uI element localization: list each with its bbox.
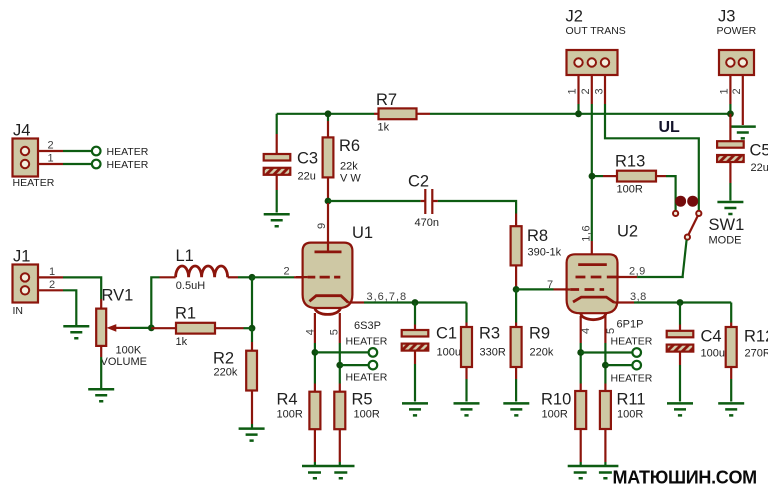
ground (R12) [718, 403, 744, 415]
wire J1 pin1 to RV1 top [38, 277, 101, 299]
svg-text:R9: R9 [529, 325, 550, 343]
svg-text:1: 1 [49, 266, 55, 278]
connector J2 [566, 8, 626, 95]
svg-text:3,8: 3,8 [630, 291, 647, 303]
svg-text:HEATER: HEATER [611, 336, 653, 348]
svg-text:IN: IN [13, 305, 24, 317]
node HEATER (U1 pin4) [346, 336, 388, 357]
wire J1 pin2 to ground [38, 290, 76, 325]
capacitor C2 [408, 173, 439, 230]
svg-text:R1: R1 [175, 305, 196, 323]
node HEATER (J4 pin1) [92, 159, 149, 171]
capacitor C3 [264, 114, 318, 213]
resistor R2 [213, 328, 257, 427]
svg-text:0.5uH: 0.5uH [176, 280, 205, 292]
wire top supply net [277, 113, 374, 115]
op-amp U2 (pentode 6P1P) [565, 223, 643, 335]
ground (C5) [717, 202, 743, 214]
svg-text:2: 2 [580, 88, 592, 94]
node A junction (RV1/R1/L1) [148, 277, 160, 331]
capacitor C5 [717, 114, 768, 201]
node junction (U2 pin5 heater) [602, 362, 632, 369]
svg-text:22k: 22k [340, 161, 358, 173]
watermark МАТЮШИН.COM [613, 468, 757, 488]
svg-text:HEATER: HEATER [611, 373, 653, 385]
wire RV1 bottom to ground [100, 357, 102, 388]
svg-text:R6: R6 [339, 137, 360, 155]
svg-text:J3: J3 [718, 8, 735, 26]
node HEATER (U2 pin4) [611, 336, 653, 357]
svg-text:22u: 22u [298, 171, 316, 183]
svg-text:U1: U1 [352, 224, 373, 242]
svg-text:C5: C5 [750, 142, 768, 160]
wire U1 cathode net 3,6,7,8 [348, 291, 466, 303]
svg-text:J2: J2 [566, 8, 583, 26]
svg-text:HEATER: HEATER [346, 336, 388, 348]
svg-text:R3: R3 [479, 325, 500, 343]
wire U1 pin5 [339, 313, 341, 392]
svg-text:470n: 470n [415, 217, 439, 229]
resistor R10 [541, 391, 586, 466]
svg-text:MODE: MODE [709, 235, 742, 247]
node junction (U1 pin4 heater) [312, 349, 369, 356]
svg-text:6S3P: 6S3P [354, 320, 381, 332]
svg-text:9: 9 [316, 223, 328, 229]
svg-text:R12: R12 [744, 328, 768, 346]
svg-text:R13: R13 [615, 153, 645, 171]
wire SW1 common to U2 screen 2,9 [616, 240, 687, 278]
resistor R12 [726, 303, 768, 402]
ground (R11) [599, 473, 612, 479]
svg-text:R2: R2 [213, 350, 234, 368]
svg-text:HEATER: HEATER [107, 146, 149, 158]
capacitor C4 [667, 303, 725, 402]
svg-text:OUT TRANS: OUT TRANS [566, 25, 626, 37]
svg-text:100R: 100R [617, 409, 643, 421]
wire C2 to R8 [438, 201, 516, 214]
svg-text:R10: R10 [541, 391, 571, 409]
svg-text:220k: 220k [530, 347, 554, 359]
node junction (U2 pin4 heater) [577, 349, 632, 356]
svg-text:J4: J4 [13, 122, 30, 140]
svg-text:100R: 100R [617, 184, 643, 196]
svg-text:100K: 100K [116, 345, 142, 357]
ground (C4) [667, 403, 693, 415]
wire J3 pin1 to supply net [727, 75, 734, 117]
svg-text:UL: UL [659, 119, 681, 136]
node B junction (L1/U1 grid/R1-R2) [249, 274, 256, 332]
svg-text:270R: 270R [745, 348, 768, 360]
wire J2 pin1 to supply net [575, 75, 582, 117]
svg-text:МАТЮШИН.COM: МАТЮШИН.COM [613, 468, 757, 488]
svg-text:100R: 100R [277, 409, 303, 421]
node junction (R6 bottom / U1 plate / C2) [325, 198, 421, 205]
wire U1 pin4 [314, 313, 316, 392]
resistor R13 [592, 153, 676, 212]
wire J4 pin1 to heater node [38, 163, 92, 165]
resistor R11 [600, 391, 646, 466]
potentiometer RV1 [96, 287, 147, 368]
ground (J1 pin2) [63, 326, 89, 338]
svg-text:2: 2 [48, 140, 54, 152]
ground (R9) [503, 403, 529, 415]
svg-text:3,6,7,8: 3,6,7,8 [367, 291, 408, 303]
svg-text:1,6: 1,6 [581, 225, 593, 242]
svg-text:HEATER: HEATER [13, 177, 55, 189]
svg-text:22u: 22u [751, 162, 768, 174]
wire node B to U1 grid pin 2 [252, 265, 302, 277]
wire J2 pin2 to U2 plate [591, 75, 593, 265]
svg-text:VOLUME: VOLUME [101, 356, 147, 368]
svg-text:HEATER: HEATER [346, 372, 388, 384]
svg-text:C1: C1 [436, 325, 457, 343]
svg-text:2: 2 [49, 279, 55, 291]
svg-text:R4: R4 [277, 391, 298, 409]
svg-text:POWER: POWER [717, 25, 757, 37]
svg-text:1k: 1k [176, 336, 188, 348]
wire J4 pin2 to heater node [38, 150, 92, 152]
svg-text:HEATER: HEATER [107, 159, 149, 171]
ground (C1) [402, 403, 428, 415]
wire U2 pin5 [604, 316, 606, 391]
svg-text:U2: U2 [617, 223, 638, 241]
inductor L1 [160, 247, 239, 292]
resistor R9 [511, 289, 554, 401]
svg-text:220k: 220k [214, 367, 238, 379]
svg-text:7: 7 [547, 279, 553, 291]
wire U2 cathode net 3,8 [614, 291, 731, 303]
svg-text:R11: R11 [617, 391, 646, 409]
resistor R7 [374, 91, 430, 134]
node junction (R6 top) [325, 110, 332, 117]
resistor R6 [323, 114, 362, 201]
connector J4 [13, 122, 55, 190]
svg-text:100u: 100u [437, 347, 461, 359]
wire U2 pin4 [580, 316, 582, 391]
resistor R1 [151, 305, 252, 349]
svg-text:390-1k: 390-1k [528, 247, 562, 259]
node HEATER (J4 pin2) [92, 146, 149, 158]
connector J1 [13, 248, 56, 318]
ground (R10) [568, 466, 619, 478]
ground (R2) [239, 429, 265, 441]
svg-text:2,9: 2,9 [629, 266, 646, 278]
svg-text:1k: 1k [378, 122, 390, 134]
wire J3 pin2 to ground [742, 75, 744, 125]
svg-text:1: 1 [567, 88, 579, 94]
resistor R3 [461, 303, 506, 402]
svg-text:RV1: RV1 [102, 287, 134, 305]
svg-text:C3: C3 [297, 150, 318, 168]
node junction (R13/U2 plate net) [589, 173, 596, 180]
svg-text:100u: 100u [701, 348, 725, 360]
svg-text:100R: 100R [542, 409, 568, 421]
node junction (R8/R9/U2 grid) [513, 279, 567, 293]
ground (R5) [334, 473, 347, 479]
svg-text:J1: J1 [13, 248, 30, 266]
svg-text:R5: R5 [352, 391, 373, 409]
resistor R4 [277, 391, 321, 466]
wire J2 pin3 UL net [605, 75, 699, 211]
svg-text:R7: R7 [376, 91, 397, 109]
svg-text:C2: C2 [408, 173, 429, 191]
svg-text:R8: R8 [527, 227, 548, 245]
ground (C3) [264, 214, 290, 226]
connector J3 [717, 8, 757, 95]
resistor R5 [334, 391, 380, 466]
svg-text:1: 1 [719, 88, 731, 94]
svg-text:SW1: SW1 [709, 216, 745, 234]
ground (RV1) [88, 389, 114, 401]
node junction (U1 pin5 heater) [336, 362, 368, 369]
ground (J3 pin2) [730, 127, 756, 139]
svg-text:5: 5 [605, 328, 617, 334]
wire L1 to U1 grid node [238, 276, 252, 278]
svg-text:330R: 330R [480, 347, 506, 359]
ground (R3) [454, 403, 480, 415]
capacitor C1 [402, 303, 461, 402]
svg-text:100R: 100R [354, 409, 380, 421]
node HEATER (U1 pin5) [346, 361, 388, 384]
switch SW1 [673, 196, 744, 247]
svg-text:2: 2 [731, 88, 743, 94]
node HEATER (U2 pin5) [611, 361, 653, 385]
op-amp U1 (triode 6S3P) [296, 203, 381, 335]
resistor R8 [511, 214, 562, 290]
svg-text:2: 2 [284, 265, 290, 277]
node junction (C1 tap) [412, 299, 419, 306]
svg-text:3: 3 [593, 88, 605, 94]
svg-text:V W: V W [340, 172, 361, 184]
svg-text:6P1P: 6P1P [617, 319, 644, 331]
wire R7 to J2/J3 [430, 113, 730, 115]
svg-text:C4: C4 [701, 328, 722, 346]
svg-text:L1: L1 [176, 247, 194, 265]
svg-text:1: 1 [48, 153, 54, 165]
ground (R4) [302, 466, 355, 478]
wire RV1 wiper to node A [130, 327, 151, 329]
node junction (C4 tap) [677, 299, 684, 306]
